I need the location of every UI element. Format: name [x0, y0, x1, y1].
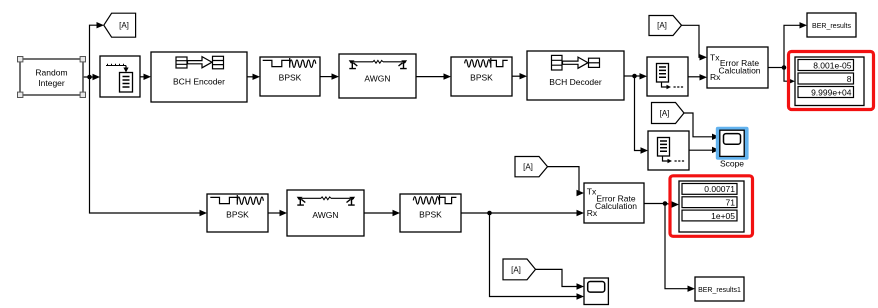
block Unbuffer1 — [647, 57, 688, 96]
wire BCH Encoder to BPSK modulator — [247, 74, 260, 80]
wire BPSK modulator to AWGN — [320, 73, 339, 79]
from tag [A] mid — [652, 103, 685, 124]
junction at Random Integer output — [87, 75, 92, 80]
selection handles of Random Integer — [18, 57, 86, 98]
goto tag [A] top-left — [104, 13, 136, 37]
wire ERC1 output to junction — [768, 67, 784, 69]
svg-text:BCH Decoder: BCH Decoder — [549, 77, 602, 87]
block AWGN channel (bottom) — [287, 190, 364, 236]
wire junction up to BER_results — [784, 22, 807, 67]
block BPSK demodulator (bottom) — [400, 194, 461, 232]
svg-text:Integer: Integer — [38, 78, 65, 88]
wire junction to ERC2 Rx — [490, 210, 585, 216]
svg-text:AWGN: AWGN — [364, 74, 390, 84]
from tag [A] bottom — [503, 259, 536, 280]
block BPSK modulator (bottom) — [207, 194, 268, 232]
svg-text:BPSK: BPSK — [279, 72, 302, 82]
block Scope — [720, 130, 745, 168]
svg-text:8.001e-05: 8.001e-05 — [813, 60, 852, 70]
junction after BCH Decoder — [632, 74, 637, 79]
wire ERC2 output to junction — [644, 203, 665, 205]
wire junction down to BER_results1 — [665, 204, 695, 292]
wire junction to Display2 — [665, 201, 679, 207]
svg-text:1e+05: 1e+05 — [711, 211, 735, 221]
block BCH Decoder — [527, 51, 624, 100]
svg-text:BER_results1: BER_results1 — [698, 287, 741, 294]
svg-text:8: 8 — [847, 74, 852, 84]
svg-text:Calculation: Calculation — [595, 201, 637, 211]
svg-text:[A]: [A] — [511, 265, 521, 274]
block BPSK demodulator (top) — [451, 57, 512, 96]
red highlight around Display1 — [789, 52, 874, 110]
block AWGN channel (top) — [339, 54, 416, 98]
svg-text:[A]: [A] — [523, 163, 533, 172]
junction lower branch — [487, 211, 492, 216]
svg-text:BPSK: BPSK — [470, 72, 493, 82]
wire junction down to lower-branch BPSK modulator — [90, 77, 208, 216]
svg-text:BPSK: BPSK — [226, 209, 249, 219]
block Display2 — [679, 181, 744, 232]
svg-text:AWGN: AWGN — [312, 210, 338, 220]
svg-text:BPSK: BPSK — [419, 209, 442, 219]
svg-text:[A]: [A] — [657, 21, 667, 30]
svg-text:Scope: Scope — [720, 159, 744, 169]
block BER_results (To Workspace) — [807, 13, 856, 37]
wire Random Integer output to junction — [83, 76, 89, 78]
wire junction down to Unbuffer2 input — [635, 76, 649, 154]
junction at ERC1 output — [782, 65, 787, 70]
junction at ERC2 output — [663, 201, 668, 206]
wire BCH Decoder to junction — [624, 75, 634, 77]
wire Buffer to BCH Encoder — [140, 74, 151, 80]
wire BPSK demodulator to BCH Decoder — [512, 73, 527, 79]
wire lower BPSK modulator to AWGN1 — [268, 210, 287, 216]
block Unbuffer2 — [648, 131, 689, 170]
svg-text:[A]: [A] — [119, 21, 129, 30]
svg-text:71: 71 — [726, 198, 736, 208]
svg-text:0.00071: 0.00071 — [704, 184, 735, 194]
block Error Rate Calculation (top) — [707, 47, 768, 88]
wire junction to Unbuffer1 input — [635, 73, 648, 79]
block BPSK modulator (top) — [260, 57, 320, 96]
svg-text:[A]: [A] — [660, 109, 670, 118]
wire From tag A (mid) to Scope input 1 — [684, 113, 720, 140]
block BCH Encoder — [151, 52, 247, 102]
wire From tag A (branch2) to ERC2 Tx — [548, 167, 585, 197]
wire AWGN to BPSK demodulator — [416, 73, 451, 79]
wire lower BPSK demodulator to junction — [461, 212, 489, 214]
block Error Rate Calculation (bottom) — [584, 183, 644, 223]
svg-text:Tx: Tx — [710, 52, 720, 62]
block Display1 — [795, 57, 864, 106]
wire junction to Buffer input — [90, 74, 101, 80]
from tag [A] top — [649, 16, 682, 36]
block Random Integer (selected) — [20, 59, 83, 95]
wire junction down to Display1 — [784, 68, 795, 85]
wire From tag A (bottom) to Scope1 input 1 — [536, 269, 585, 289]
red highlight around Display2 — [670, 176, 753, 237]
wire Unbuffer2 to Scope input 2 — [689, 147, 720, 153]
block Scope1 (bottom scope) — [584, 278, 608, 305]
svg-text:9.999e+04: 9.999e+04 — [811, 87, 852, 97]
wire From tag A (top) to Error Rate Calculation Tx — [682, 25, 708, 60]
wire Unbuffer1 to Error Rate Calculation Rx — [688, 74, 707, 80]
block BER_results1 (To Workspace) — [695, 277, 744, 301]
svg-text:Random: Random — [35, 68, 67, 78]
wire junction up to Goto A tag — [90, 22, 105, 77]
wire AWGN1 to lower BPSK demodulator — [364, 210, 400, 216]
svg-text:BER_results: BER_results — [812, 23, 851, 30]
svg-text:BCH Encoder: BCH Encoder — [173, 77, 225, 87]
svg-text:Calculation: Calculation — [718, 66, 760, 76]
block Buffer (frame conversion) — [100, 56, 140, 97]
from tag [A] branch2 — [515, 157, 548, 177]
blue selection highlight around Scope — [716, 127, 749, 160]
wire junction down to Scope1 input 2 — [490, 213, 585, 300]
